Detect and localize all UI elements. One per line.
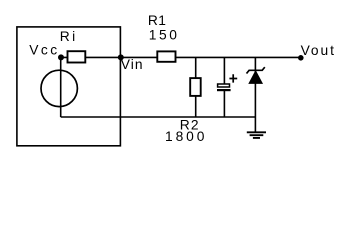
wire bottom rail <box>61 116 256 118</box>
wire R2 branch <box>195 57 197 117</box>
wire capacitor branch top <box>223 57 225 84</box>
ground symbol <box>247 132 266 138</box>
wire zener branch <box>254 57 256 131</box>
node Vout dot <box>298 55 304 61</box>
svg-text:Ri: Ri <box>60 29 78 44</box>
node Vin dot <box>118 54 124 60</box>
svg-text:Vin: Vin <box>121 57 144 72</box>
svg-text:Vcc: Vcc <box>29 42 60 57</box>
svg-text:Vout: Vout <box>301 43 336 58</box>
capacitor plus sign <box>229 74 237 82</box>
capacitor C1 top plate <box>218 84 230 87</box>
svg-text:150: 150 <box>149 28 180 43</box>
wire top rail Vcc to Vout <box>61 56 301 58</box>
capacitor C1 bottom plate <box>217 89 231 91</box>
resistor R1 <box>157 51 175 61</box>
wire capacitor branch bottom <box>223 91 225 117</box>
svg-text:R1: R1 <box>148 13 166 28</box>
wire Vcc node down through source to bottom <box>60 57 62 117</box>
box enclosure <box>17 27 121 146</box>
source circle <box>41 70 77 106</box>
zener diode D1 triangle <box>249 71 262 83</box>
resistor Ri <box>68 51 86 62</box>
svg-text:1800: 1800 <box>165 129 207 144</box>
node Vcc dot <box>58 54 64 60</box>
zener diode D1 cathode bar <box>247 67 265 73</box>
resistor R2 <box>190 78 201 96</box>
